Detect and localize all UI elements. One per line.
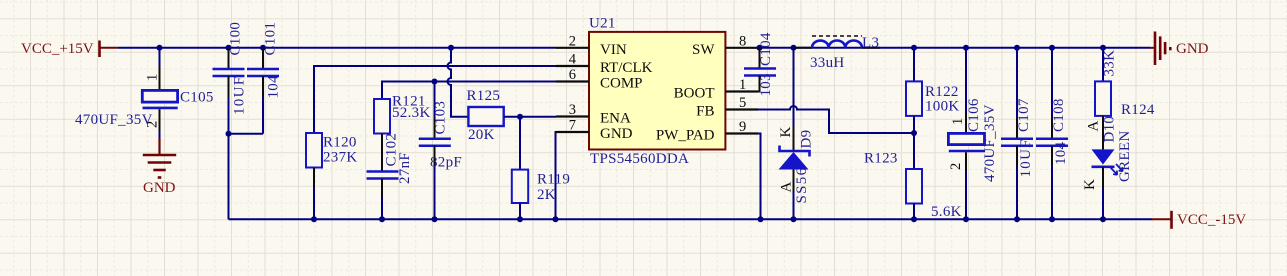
svg-text:2: 2 bbox=[569, 33, 576, 49]
pin 4 RT/CLK bbox=[556, 52, 653, 77]
svg-text:R125: R125 bbox=[467, 88, 501, 104]
pin 8 SW bbox=[692, 33, 758, 58]
svg-text:1: 1 bbox=[739, 77, 746, 93]
capacitor C107 bbox=[1001, 48, 1034, 220]
node C105 top bbox=[157, 45, 163, 51]
resistor R119 bbox=[512, 117, 570, 203]
svg-text:PW_PAD: PW_PAD bbox=[656, 128, 715, 144]
svg-text:R122: R122 bbox=[925, 84, 959, 100]
svg-text:9: 9 bbox=[739, 119, 746, 135]
wire VIN rail bbox=[118, 47, 556, 49]
svg-text:27nF: 27nF bbox=[397, 152, 413, 184]
svg-text:VIN: VIN bbox=[600, 42, 627, 58]
wire GND pin to negative rail bbox=[556, 132, 590, 219]
node D10 bottom bbox=[1100, 216, 1106, 222]
node R123 bottom bbox=[911, 216, 917, 222]
svg-text:1: 1 bbox=[950, 118, 966, 125]
svg-text:C106: C106 bbox=[966, 98, 982, 132]
node C103 top bbox=[432, 79, 438, 85]
ground GND (C105) bbox=[143, 138, 176, 196]
svg-text:470UF_35V: 470UF_35V bbox=[982, 104, 998, 182]
svg-text:10UF: 10UF bbox=[1018, 138, 1034, 177]
svg-text:C105: C105 bbox=[180, 90, 214, 106]
svg-text:5: 5 bbox=[739, 95, 746, 111]
node R125 feed bbox=[448, 45, 454, 51]
node C106 bottom bbox=[963, 216, 969, 222]
node D9 anode bottom bbox=[791, 216, 797, 222]
power port VCC_+15V bbox=[21, 41, 118, 58]
pin 2 VIN bbox=[556, 33, 627, 58]
power port VCC_-15V bbox=[1152, 211, 1246, 229]
svg-text:470UF_35V: 470UF_35V bbox=[75, 112, 153, 128]
svg-text:TPS54560DDA: TPS54560DDA bbox=[590, 151, 689, 167]
op-amp U21 TPS54560DDA body bbox=[589, 15, 725, 167]
svg-text:82pF: 82pF bbox=[430, 155, 462, 171]
svg-text:VCC_+15V: VCC_+15V bbox=[21, 41, 94, 57]
svg-text:52.3K: 52.3K bbox=[392, 105, 431, 121]
wire R123 bottom bbox=[913, 204, 915, 220]
node C103 bottom bbox=[432, 216, 438, 222]
node C106 top bbox=[963, 45, 969, 51]
svg-text:A: A bbox=[1086, 121, 1102, 132]
svg-text:GND: GND bbox=[143, 180, 176, 196]
capacitor C106 bbox=[948, 48, 998, 220]
wire R125 to ENA bbox=[504, 116, 556, 118]
wire R119 bottom bbox=[519, 203, 521, 219]
svg-text:6: 6 bbox=[569, 67, 576, 83]
node R122 top bbox=[911, 45, 917, 51]
svg-text:SW: SW bbox=[692, 42, 715, 58]
node C107 top bbox=[1014, 45, 1020, 51]
node FB divider bbox=[911, 130, 917, 136]
node C108 top bbox=[1049, 45, 1055, 51]
resistor R124 bbox=[1095, 48, 1155, 118]
svg-text:237K: 237K bbox=[323, 150, 358, 166]
svg-text:33uH: 33uH bbox=[810, 55, 845, 71]
svg-text:D10: D10 bbox=[1102, 116, 1118, 143]
svg-text:R120: R120 bbox=[323, 135, 357, 151]
svg-text:RT/CLK: RT/CLK bbox=[600, 60, 653, 76]
svg-text:R123: R123 bbox=[864, 151, 898, 167]
node C100 top bbox=[226, 45, 232, 51]
node C108 bottom bbox=[1049, 216, 1055, 222]
svg-text:C103: C103 bbox=[433, 101, 449, 135]
node R119 top bbox=[517, 114, 523, 120]
svg-text:L3: L3 bbox=[862, 35, 879, 51]
node PW_PAD bottom bbox=[758, 216, 764, 222]
node R124 top bbox=[1100, 45, 1106, 51]
resistor R123 bbox=[864, 133, 962, 220]
capacitor C104 bbox=[744, 32, 776, 96]
node C107 bottom bbox=[1014, 216, 1020, 222]
pin 7 GND bbox=[556, 118, 633, 143]
capacitor C102 bbox=[367, 133, 414, 220]
wire COMP bbox=[382, 82, 556, 100]
svg-text:2K: 2K bbox=[537, 187, 556, 203]
wire R121 to C102 bbox=[381, 134, 383, 172]
node GND pin bottom bbox=[553, 216, 559, 222]
svg-text:7: 7 bbox=[569, 118, 576, 134]
capacitor C100 bbox=[213, 22, 248, 134]
svg-text:104: 104 bbox=[266, 75, 282, 99]
wire SW rail bbox=[758, 47, 1150, 49]
capacitor C105 bbox=[75, 48, 214, 131]
wire VIN to R125 with hops bbox=[448, 48, 469, 117]
wire RT/CLK to R120 bbox=[314, 66, 556, 133]
node D9 cathode bbox=[791, 45, 797, 51]
node R120 bottom bbox=[311, 216, 317, 222]
capacitor C108 bbox=[1036, 48, 1069, 220]
svg-text:C108: C108 bbox=[1051, 98, 1067, 132]
svg-text:C107: C107 bbox=[1016, 98, 1032, 132]
node C104 top bbox=[757, 45, 763, 51]
wire R120 bottom bbox=[313, 168, 315, 189]
svg-text:C104: C104 bbox=[758, 32, 774, 66]
wire C105 to ground bbox=[159, 131, 161, 140]
svg-text:20K: 20K bbox=[468, 127, 495, 143]
svg-text:K: K bbox=[778, 127, 794, 138]
svg-text:33K: 33K bbox=[1102, 50, 1118, 77]
svg-text:ENA: ENA bbox=[600, 111, 631, 127]
pin 1 BOOT bbox=[674, 77, 758, 102]
capacitor C103 bbox=[419, 82, 462, 220]
svg-text:1: 1 bbox=[145, 74, 161, 81]
node C100 bottom bbox=[226, 131, 232, 137]
resistor R120 bbox=[306, 133, 358, 168]
svg-text:COMP: COMP bbox=[600, 76, 643, 92]
diode D9 SS56 bbox=[778, 48, 815, 220]
svg-text:5.6K: 5.6K bbox=[931, 204, 962, 220]
svg-text:K: K bbox=[1082, 179, 1098, 190]
capacitor C101 bbox=[247, 22, 282, 134]
node R119 bottom bbox=[517, 216, 523, 222]
svg-text:BOOT: BOOT bbox=[674, 86, 715, 102]
pin 3 ENA bbox=[556, 102, 631, 127]
wire VCC_-15V rail bbox=[229, 218, 1153, 220]
svg-text:8: 8 bbox=[739, 33, 746, 49]
svg-text:R124: R124 bbox=[1121, 102, 1155, 118]
svg-text:A: A bbox=[779, 182, 795, 193]
ground GND port (output) bbox=[1150, 32, 1209, 66]
pin 6 COMP bbox=[556, 67, 643, 92]
svg-text:C100: C100 bbox=[228, 22, 244, 56]
svg-text:D9: D9 bbox=[799, 130, 815, 149]
svg-text:VCC_-15V: VCC_-15V bbox=[1177, 212, 1246, 228]
pin 9 PW_PAD bbox=[656, 119, 758, 144]
wire R122 bottom bbox=[913, 116, 915, 133]
svg-text:2: 2 bbox=[948, 163, 964, 170]
resistor R122 bbox=[906, 48, 960, 116]
svg-text:3: 3 bbox=[569, 102, 576, 118]
wire C100-C101 join bbox=[229, 133, 264, 135]
resistor R125 bbox=[467, 88, 504, 143]
inductor L3 bbox=[794, 35, 881, 71]
svg-text:10UF: 10UF bbox=[232, 76, 248, 115]
wire C100 down to negative rail bbox=[228, 134, 230, 220]
wire FB to divider bbox=[758, 106, 914, 133]
wire PW_PAD to negative rail bbox=[758, 134, 761, 220]
svg-text:GREEN: GREEN bbox=[1117, 131, 1133, 183]
node C101 top bbox=[260, 45, 266, 51]
svg-text:C101: C101 bbox=[263, 22, 279, 56]
svg-text:FB: FB bbox=[696, 104, 714, 120]
svg-text:R119: R119 bbox=[537, 171, 570, 187]
resistor R121 bbox=[374, 94, 431, 134]
svg-text:GND: GND bbox=[600, 126, 633, 142]
svg-text:4: 4 bbox=[569, 52, 577, 68]
svg-text:GND: GND bbox=[1176, 41, 1209, 57]
svg-text:104: 104 bbox=[1053, 141, 1069, 165]
svg-text:U21: U21 bbox=[589, 15, 616, 31]
node C102 bottom bbox=[379, 216, 385, 222]
pin 5 FB bbox=[696, 95, 758, 120]
svg-text:103: 103 bbox=[758, 73, 774, 96]
svg-text:100K: 100K bbox=[925, 99, 960, 115]
LED D10 GREEN bbox=[1082, 116, 1133, 220]
svg-text:SS56: SS56 bbox=[794, 167, 810, 204]
